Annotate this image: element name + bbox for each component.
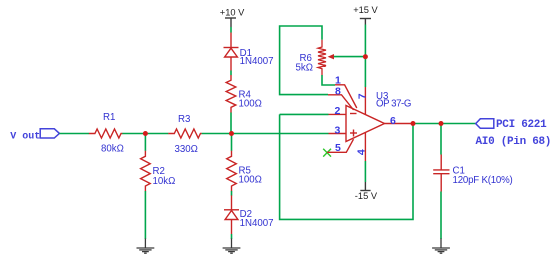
power -15 V bar symbol — [360, 182, 370, 191]
wire feedback loop — [280, 114, 413, 219]
label OP 37-G — [376, 99, 411, 110]
label D1 — [240, 48, 252, 59]
value 100Ω (R5) — [239, 174, 262, 185]
op-amp pin 8 lead — [328, 95, 354, 110]
value 1N4007 (D2) — [240, 218, 274, 229]
svg-text:100Ω: 100Ω — [239, 98, 262, 109]
svg-text:+10 V: +10 V — [220, 7, 245, 17]
value 80kΩ — [101, 144, 124, 155]
value 120pF K(10%) — [453, 175, 513, 186]
svg-text:8: 8 — [335, 86, 341, 98]
junction +15V node — [363, 54, 368, 59]
label D2 — [240, 209, 252, 220]
label C1 — [453, 166, 465, 177]
wire node A to R3 — [145, 133, 168, 135]
pin 5 no-connect X — [323, 149, 331, 157]
output connector PCI 6221 — [476, 119, 494, 129]
pot R6 loop to pin 8 — [280, 26, 328, 95]
wire R5 to D2 — [231, 191, 233, 196]
node V out label — [10, 131, 40, 142]
svg-text:1: 1 — [335, 75, 341, 87]
svg-text:330Ω: 330Ω — [175, 144, 198, 155]
resistor R4 — [226, 75, 236, 113]
value 5kΩ — [296, 62, 313, 73]
power +15 V label — [353, 5, 378, 15]
wire +10V to D1 — [230, 27, 232, 33]
wire input to R1 — [59, 133, 89, 135]
power +15 V bar symbol — [360, 19, 371, 25]
wire R1 to node A — [122, 133, 146, 135]
op-amp minus mark — [350, 113, 357, 115]
svg-text:1N4007: 1N4007 — [240, 218, 274, 229]
svg-text:10kΩ: 10kΩ — [153, 176, 176, 187]
label R5 — [239, 166, 251, 177]
pin number 1 — [335, 75, 341, 87]
op-amp pin 7 lead — [364, 87, 366, 115]
wire feedback to pin 2 — [280, 113, 329, 115]
svg-text:120pF K(10%): 120pF K(10%) — [453, 175, 513, 186]
wire R4 to node B — [230, 113, 232, 134]
junction output node C — [411, 121, 416, 126]
resistor R3 — [168, 129, 202, 138]
value 100Ω (R4) — [239, 98, 262, 109]
label R2 — [153, 166, 165, 177]
node AI0 (Pin 68) label — [476, 136, 550, 148]
diode D2 lead top — [231, 195, 233, 209]
wire node B to pin 3 — [232, 133, 329, 135]
junction node D — [439, 121, 444, 126]
svg-text:AI0 (Pin 68): AI0 (Pin 68) — [476, 136, 550, 148]
wire D1 to R4 — [230, 71, 232, 76]
label U3 — [376, 91, 388, 102]
pin number 3 — [335, 124, 341, 136]
diode D1 — [224, 48, 239, 71]
value 1N4007 (D1) — [240, 56, 274, 67]
wire R6 wiper to +15V line — [334, 56, 366, 58]
svg-text:+15 V: +15 V — [353, 5, 378, 15]
wire node A down to R2 — [144, 134, 146, 151]
label R6 — [300, 53, 312, 64]
svg-text:5: 5 — [335, 142, 341, 154]
ground under D2 — [223, 239, 241, 254]
node PCI 6221 label — [496, 119, 547, 131]
label R3 — [178, 114, 190, 125]
wire node B down to R5 — [231, 134, 233, 151]
op-amp pin 5 lead — [327, 139, 353, 152]
op-amp U1 pin 3 lead — [329, 133, 347, 135]
op-amp pin 4 lead — [364, 132, 366, 161]
ground under R2 — [137, 239, 155, 254]
potentiometer R6 — [318, 40, 326, 75]
resistor R1 — [89, 129, 123, 138]
wire junction to pin 7 — [364, 57, 366, 87]
capacitor C1 — [433, 155, 449, 192]
junction node A — [143, 131, 148, 136]
svg-text:OP 37-G: OP 37-G — [376, 99, 411, 110]
wire node D down to C1 — [440, 124, 442, 155]
pin number 4 — [355, 149, 367, 155]
wire D2 to ground — [231, 234, 233, 239]
value 330Ω — [175, 144, 198, 155]
svg-text:4: 4 — [355, 149, 367, 155]
pin number 2 — [335, 105, 341, 117]
svg-text:6: 6 — [390, 115, 396, 127]
wire node D to output connector — [441, 123, 476, 125]
svg-text:-15 V: -15 V — [355, 191, 378, 201]
wire R3 to node B — [202, 133, 232, 135]
pin number 8 — [335, 86, 341, 98]
power -15 V label — [355, 191, 378, 201]
svg-text:2: 2 — [335, 105, 341, 117]
wire output node C to node D — [413, 123, 441, 125]
wire R2 to ground — [144, 191, 146, 239]
op-amp pin 1 lead — [335, 85, 357, 108]
svg-text:1N4007: 1N4007 — [240, 56, 274, 67]
ground under C1 — [432, 239, 450, 254]
svg-text:V out: V out — [10, 131, 40, 142]
wire C1 to ground — [440, 192, 442, 240]
wire pin 4 to -15V — [364, 161, 366, 182]
pin number 6 — [390, 115, 396, 127]
label R4 — [239, 90, 252, 101]
resistor R2 — [141, 151, 151, 191]
wire +15V down to junction — [364, 25, 366, 58]
junction node B — [229, 131, 234, 136]
op-amp U1 pin 2 lead — [329, 113, 347, 115]
svg-text:3: 3 — [335, 124, 341, 136]
op-amp plus mark — [350, 130, 357, 137]
resistor R5 — [227, 151, 237, 191]
svg-text:100Ω: 100Ω — [239, 174, 262, 185]
diode D1 lead top — [230, 33, 232, 48]
label R1 — [103, 112, 115, 123]
svg-text:PCI 6221: PCI 6221 — [496, 119, 547, 131]
pot R6 wiper arrow — [328, 54, 334, 59]
power +10 V bar symbol — [225, 18, 236, 27]
op-amp U3 triangle — [346, 106, 385, 142]
power +10 V label — [220, 7, 245, 17]
input connector V out — [40, 129, 59, 138]
op-amp pin 6 output lead — [385, 123, 414, 125]
svg-text:5kΩ: 5kΩ — [296, 62, 313, 73]
pot R6 bottom dot — [323, 64, 326, 67]
value 10kΩ — [153, 176, 176, 187]
svg-text:R1: R1 — [103, 112, 115, 123]
svg-text:80kΩ: 80kΩ — [101, 144, 124, 155]
svg-text:7: 7 — [356, 93, 368, 99]
pin number 7 — [356, 93, 368, 99]
wire R6 bottom to pin 1 — [322, 75, 335, 85]
pin number 5 — [335, 142, 341, 154]
diode D2 — [224, 210, 239, 234]
svg-text:R3: R3 — [178, 114, 190, 125]
